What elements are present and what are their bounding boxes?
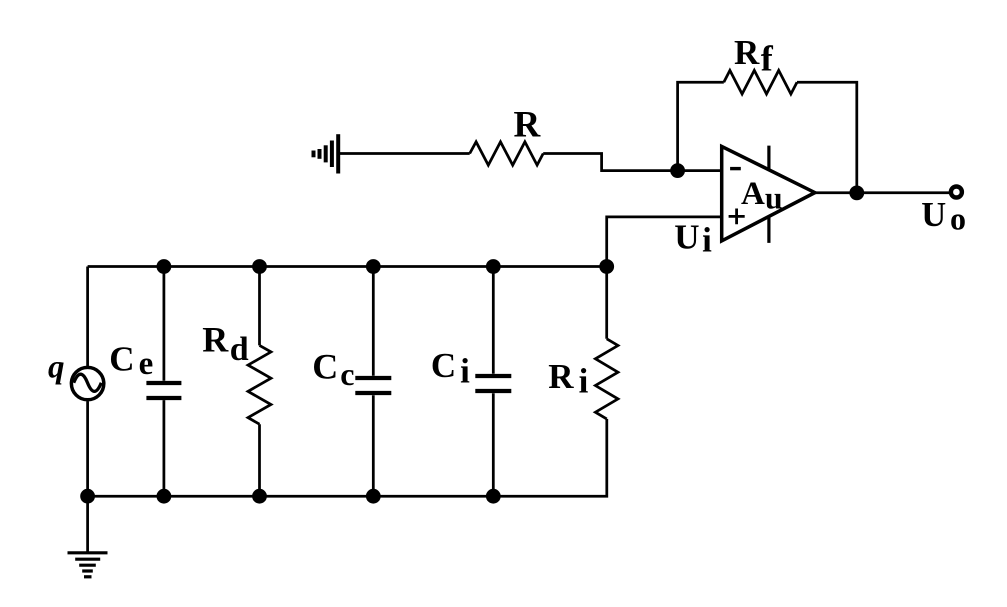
svg-text:Uo: Uo bbox=[921, 196, 966, 236]
svg-text:R: R bbox=[514, 105, 542, 146]
svg-text:q: q bbox=[48, 350, 65, 386]
svg-text:Ri: Ri bbox=[548, 357, 588, 401]
svg-text:Cc: Cc bbox=[312, 347, 354, 393]
svg-text:Rd: Rd bbox=[202, 320, 249, 368]
svg-text:Ui: Ui bbox=[674, 218, 712, 260]
svg-text:Ci: Ci bbox=[431, 346, 470, 391]
svg-text:Rf: Rf bbox=[734, 33, 774, 78]
svg-text:Au: Au bbox=[741, 176, 783, 216]
svg-text:Ce: Ce bbox=[109, 339, 153, 382]
